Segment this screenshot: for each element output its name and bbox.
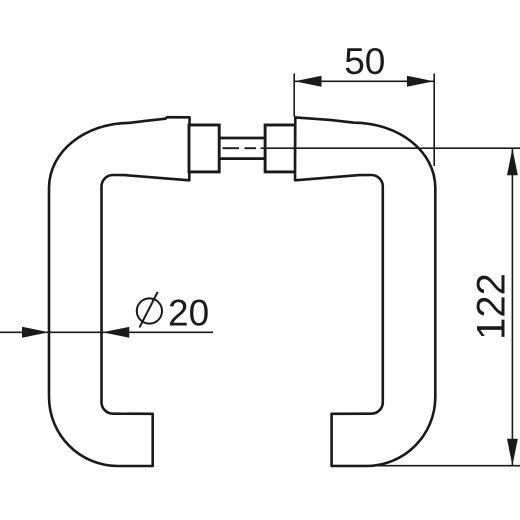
50 dimension right extension line	[433, 74, 435, 167]
centerline extension to 122 dimension	[261, 147, 520, 149]
diameter symbol slash	[140, 292, 158, 328]
spindle top line	[219, 137, 265, 140]
diameter symbol circle	[137, 298, 162, 323]
50 dimension right arrowhead	[407, 76, 434, 87]
diameter 20 dimension line with tails	[0, 331, 213, 333]
svg-text:50: 50	[344, 41, 385, 82]
diameter 20 right arrowhead	[102, 327, 129, 338]
122 dimension line	[511, 148, 513, 465]
svg-text:122: 122	[470, 273, 514, 340]
right neck (bearing collar)	[265, 125, 295, 172]
50 dimension left extension line	[293, 74, 295, 117]
122 dimension top arrowhead	[507, 148, 518, 175]
svg-text:20: 20	[168, 293, 209, 334]
122 bottom extension line	[332, 465, 520, 467]
50 dimension left arrowhead	[295, 76, 322, 87]
50 dimension line	[295, 80, 434, 82]
diameter 20 left arrowhead	[22, 327, 49, 338]
spindle bottom line	[219, 157, 265, 160]
spindle centerline dash 2	[245, 147, 257, 149]
left lever handle outline	[49, 117, 190, 466]
122 dimension bottom arrowhead	[507, 439, 518, 466]
right lever handle outline	[295, 117, 435, 466]
spindle centerline dash 1	[223, 147, 240, 149]
left neck (bearing collar)	[189, 125, 219, 172]
